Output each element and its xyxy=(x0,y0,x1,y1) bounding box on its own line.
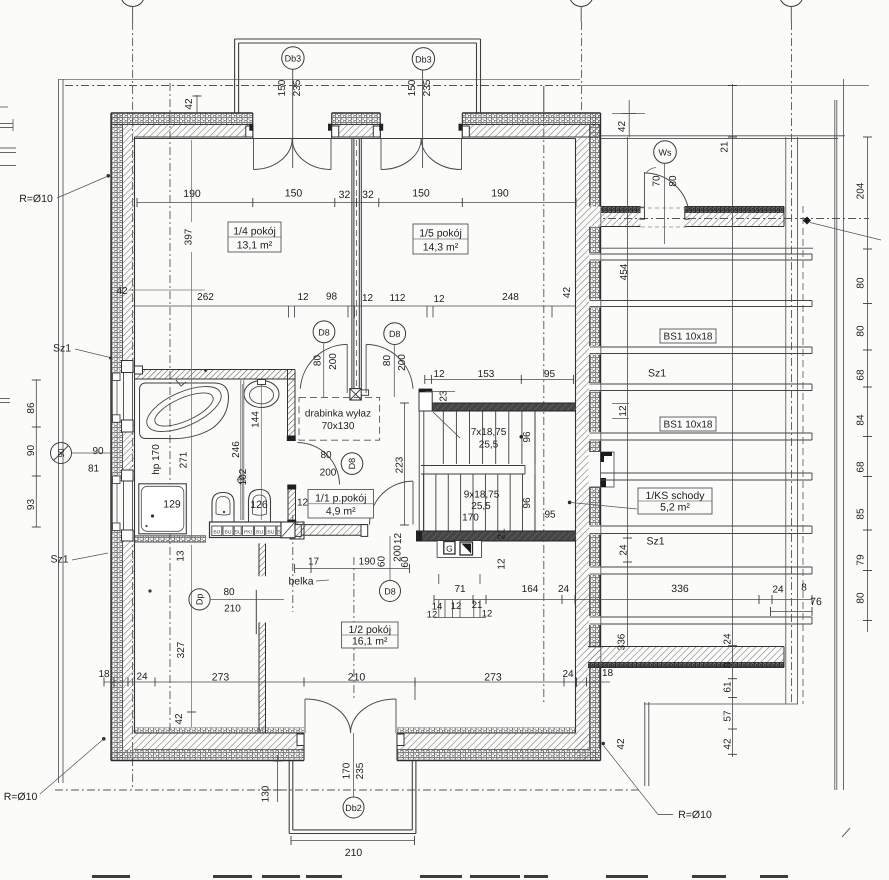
svg-text:17: 17 xyxy=(308,557,320,568)
Db3 left stem xyxy=(292,69,294,168)
svg-text:BU: BU xyxy=(225,530,232,536)
bathroom rotated dims xyxy=(151,411,262,486)
window circle Ws xyxy=(654,141,677,244)
svg-text:210: 210 xyxy=(348,672,366,684)
svg-text:D8: D8 xyxy=(347,458,357,470)
plumbing axis line xyxy=(260,380,262,520)
horizontal axis dash y=85.5 xyxy=(65,85,869,87)
label R=O10 top left xyxy=(19,174,110,205)
svg-text:24: 24 xyxy=(772,585,784,596)
svg-text:belka: belka xyxy=(288,576,313,588)
door D8 bathroom arc xyxy=(298,443,340,485)
svg-text:70: 70 xyxy=(652,175,663,187)
svg-text:1/4 pokój: 1/4 pokój xyxy=(233,226,276,238)
svg-text:BS1 10x18: BS1 10x18 xyxy=(664,420,713,431)
dim 12 21 rotated below notch xyxy=(497,528,508,570)
svg-text:200: 200 xyxy=(328,353,339,370)
svg-text:24: 24 xyxy=(723,633,734,645)
label R=O10 bottom right xyxy=(601,742,712,821)
svg-text:Db2: Db2 xyxy=(345,803,362,813)
door circle D8 hall south xyxy=(380,536,401,602)
door D8 room 1/4 leaf and arc xyxy=(300,344,347,393)
diamond marker on parapet line xyxy=(803,217,881,241)
bathroom WC divider xyxy=(241,380,244,520)
bathroom top partition wall xyxy=(135,366,296,379)
svg-text:BU: BU xyxy=(267,530,274,536)
horizontal axis dash y=218.5 terrace xyxy=(576,218,869,220)
right dimension texts xyxy=(856,182,867,603)
svg-text:90: 90 xyxy=(92,446,104,457)
hall dim 17 190 60 xyxy=(295,556,410,573)
bottom page smudges xyxy=(92,875,788,878)
svg-text:150: 150 xyxy=(407,79,418,96)
svg-text:80: 80 xyxy=(223,587,235,598)
hall dim 12 partition xyxy=(297,498,309,509)
label Sz1 left upper xyxy=(53,343,112,360)
radiator row xyxy=(210,522,282,538)
dimension 223 stair left xyxy=(395,403,409,525)
svg-text:5,2 m²: 5,2 m² xyxy=(660,502,690,514)
right wall joist bearing slots xyxy=(589,253,601,625)
svg-text:1/5 pokój: 1/5 pokój xyxy=(419,228,462,240)
corner dots xyxy=(148,369,207,593)
dim 397 room 1/4 xyxy=(184,140,195,540)
door circle Db2 xyxy=(343,797,364,818)
svg-text:68: 68 xyxy=(856,461,867,473)
svg-text:PKI: PKI xyxy=(244,530,252,536)
svg-text:153: 153 xyxy=(478,369,495,380)
svg-text:271: 271 xyxy=(179,451,190,468)
svg-text:93: 93 xyxy=(26,499,37,511)
drabinka wylaz dashed box xyxy=(299,397,380,440)
svg-text:R=Ø10: R=Ø10 xyxy=(678,809,712,821)
interior dimension chain 262 12 98 12 112 12 248 42 xyxy=(135,287,576,318)
right wall bottom terrace junction xyxy=(576,648,601,669)
dimension 130 bay xyxy=(261,755,283,802)
svg-text:12: 12 xyxy=(433,294,445,305)
svg-text:130: 130 xyxy=(261,785,272,802)
axis circle A top-left xyxy=(121,0,145,22)
eave double line left xyxy=(59,79,64,783)
right dimension chain line xyxy=(863,137,872,632)
axis circle C top-right xyxy=(779,0,803,22)
dim texts right wall chain lower xyxy=(723,633,734,750)
svg-text:Ws: Ws xyxy=(659,148,672,158)
bathroom texts xyxy=(163,499,268,512)
door D8 hall-to-room2 leaf and arc xyxy=(370,481,414,524)
left wall thickness label 42 xyxy=(116,286,205,297)
top wall inner face line xyxy=(135,138,576,140)
svg-text:8: 8 xyxy=(801,583,807,594)
axis dash line stair x=543.8 xyxy=(543,86,545,704)
svg-text:12: 12 xyxy=(297,292,309,303)
bottom bay outline xyxy=(289,761,416,834)
dim line 246-102 xyxy=(241,384,243,520)
axis dash line B x=582 xyxy=(581,22,583,113)
left wall window Sz1 upper gap xyxy=(112,373,134,421)
svg-text:70x130: 70x130 xyxy=(322,421,355,432)
svg-text:7x18,75: 7x18,75 xyxy=(471,427,507,438)
toilet left xyxy=(212,493,234,522)
label BS1 10x18 upper xyxy=(660,329,716,343)
terrace top edge lines xyxy=(601,136,846,139)
stair dim 95 inner xyxy=(544,510,556,521)
axis dash line C x=791.5 xyxy=(791,22,793,704)
svg-text:397: 397 xyxy=(184,228,195,245)
svg-text:12: 12 xyxy=(497,558,508,570)
page edge dimension stubs xyxy=(0,107,16,403)
bottom eave dash y=790 xyxy=(55,789,640,791)
svg-text:102: 102 xyxy=(238,468,249,485)
svg-text:Sz1: Sz1 xyxy=(50,554,68,566)
svg-text:42: 42 xyxy=(184,98,195,110)
insulation strip below bathroom xyxy=(135,536,207,542)
svg-text:96: 96 xyxy=(522,431,533,443)
top parapet left segment xyxy=(601,207,645,227)
hall left pier xyxy=(287,485,296,525)
svg-text:86: 86 xyxy=(26,402,37,414)
svg-text:200: 200 xyxy=(397,354,408,371)
terrace joists xyxy=(601,248,814,624)
washbasin xyxy=(244,380,279,408)
valve symbol on divider xyxy=(238,477,244,483)
level marker circle left xyxy=(51,443,112,464)
top wall jamb blocks door 2 xyxy=(373,124,469,137)
svg-text:13,1 m²: 13,1 m² xyxy=(237,240,273,252)
Db3 right stem xyxy=(422,70,424,168)
svg-text:60: 60 xyxy=(377,556,388,568)
intermediate landing lines xyxy=(421,466,525,475)
right exterior wall xyxy=(576,113,601,761)
svg-text:80: 80 xyxy=(856,592,867,604)
svg-text:85: 85 xyxy=(856,508,867,520)
svg-text:80: 80 xyxy=(856,325,867,337)
bathroom right wall upper xyxy=(287,370,296,442)
parapet door Ws leaf and arc xyxy=(641,172,689,227)
gas meter box G xyxy=(444,542,455,555)
Db2 stem xyxy=(353,733,355,797)
left wall window Sz1 lower gap xyxy=(112,481,134,530)
belka axis dash x=292.8 xyxy=(292,515,294,612)
svg-text:262: 262 xyxy=(197,292,214,303)
svg-text:190: 190 xyxy=(359,557,376,568)
belka label xyxy=(288,576,328,588)
stair top-left block xyxy=(419,389,433,411)
top wall middle pier xyxy=(332,113,381,139)
svg-text:190: 190 xyxy=(183,188,201,200)
french door Db2 leaves xyxy=(305,699,396,733)
chimney duct xyxy=(352,139,361,389)
svg-text:42: 42 xyxy=(617,121,628,133)
stairwell left boundary xyxy=(419,411,424,531)
svg-text:42: 42 xyxy=(723,738,734,750)
svg-text:235: 235 xyxy=(355,762,366,779)
svg-text:170: 170 xyxy=(342,762,353,779)
hall rotated dims 12 200 60 xyxy=(393,533,412,568)
left wall window Sz1 upper jambs xyxy=(113,361,134,433)
svg-text:150: 150 xyxy=(277,79,288,96)
svg-text:68: 68 xyxy=(856,369,867,381)
partition Dp upper segment xyxy=(259,544,266,577)
terrace vertical line x732 with dim ticks xyxy=(728,84,737,757)
svg-text:12: 12 xyxy=(427,610,438,621)
svg-text:90: 90 xyxy=(26,445,37,457)
terrace bottom dim texts xyxy=(454,583,822,609)
room label 1/KS schody xyxy=(638,488,712,514)
Db3 right size labels 150 235 xyxy=(407,79,433,96)
svg-text:273: 273 xyxy=(212,672,230,684)
svg-text:1/2 pokój: 1/2 pokój xyxy=(348,624,391,636)
toilet right 126 xyxy=(249,490,271,522)
stair dim 96 lower xyxy=(522,497,533,509)
svg-text:248: 248 xyxy=(502,292,519,303)
stair break line xyxy=(433,412,460,438)
svg-text:61: 61 xyxy=(723,681,734,693)
dim 76 sub line xyxy=(771,607,813,616)
svg-text:98: 98 xyxy=(326,292,338,303)
door D8 room 1/4 size labels xyxy=(313,353,340,370)
svg-text:235: 235 xyxy=(422,79,433,96)
svg-text:G: G xyxy=(446,544,453,554)
stair dim 23 xyxy=(425,390,455,402)
svg-text:24: 24 xyxy=(136,672,148,683)
leader from stair to 1KS label xyxy=(570,502,637,509)
dim 71 bracket xyxy=(439,574,480,584)
svg-text:21: 21 xyxy=(720,141,731,153)
label Sz1 terrace upper xyxy=(648,368,666,380)
terrace bottom dim chain xyxy=(434,595,812,604)
svg-text:129: 129 xyxy=(163,499,181,511)
svg-text:Dp: Dp xyxy=(195,594,205,606)
svg-text:9x18,75: 9x18,75 xyxy=(464,490,500,501)
svg-text:24: 24 xyxy=(619,544,630,556)
french door Db3 left leaves xyxy=(254,139,332,170)
dimension 12 outside right wall xyxy=(612,404,629,419)
exterior stair door marks 1/KS xyxy=(601,452,615,487)
svg-text:Sz1: Sz1 xyxy=(646,536,664,548)
meter recess below stair xyxy=(438,541,482,557)
svg-text:204: 204 xyxy=(856,182,867,199)
stair text 9x18,75 25,5 170 xyxy=(462,490,500,524)
svg-text:24: 24 xyxy=(558,584,570,595)
svg-text:200: 200 xyxy=(320,468,337,479)
svg-text:drabinka wyłaz: drabinka wyłaz xyxy=(305,409,371,420)
svg-text:42: 42 xyxy=(616,738,627,750)
svg-text:BU: BU xyxy=(256,530,263,536)
upper flight treads 7x18.75 xyxy=(443,411,535,531)
top wall jamb blocks door 1 xyxy=(246,124,339,137)
label Sz1 terrace lower xyxy=(646,536,664,548)
room label 1/5 pokoj xyxy=(413,224,468,254)
bottom wall right segment xyxy=(397,733,601,761)
dim 42 rotated bottom right xyxy=(616,738,627,750)
bottom wall floor insulation strips xyxy=(135,728,576,734)
left wall window Sz1 lower jambs xyxy=(113,470,134,541)
corner bathtub xyxy=(140,377,229,441)
door D8 bathroom size labels xyxy=(320,450,337,479)
svg-text:71: 71 xyxy=(454,584,466,595)
svg-text:80: 80 xyxy=(320,450,332,461)
room label 1/2 pokoj xyxy=(342,622,399,648)
axis dash line A x=132.6 xyxy=(132,22,134,790)
shower tray 129 xyxy=(139,484,187,534)
svg-text:25,5: 25,5 xyxy=(479,440,499,451)
door axis dash x=353.9 xyxy=(353,557,355,699)
door D8 room 1/5 size labels xyxy=(382,354,408,371)
bottom terrace band xyxy=(588,647,784,668)
svg-text:79: 79 xyxy=(856,554,867,566)
svg-text:12: 12 xyxy=(297,498,309,509)
door Dp leaf xyxy=(255,590,257,634)
stair text 7x18,75 25,5 xyxy=(471,427,507,451)
door circle Db3 right xyxy=(412,48,434,70)
svg-text:273: 273 xyxy=(484,672,502,684)
svg-text:42: 42 xyxy=(116,286,128,297)
small dim cluster 14 12 21 12 12 xyxy=(427,600,493,621)
svg-text:BS1 10x18: BS1 10x18 xyxy=(664,332,713,343)
dim 24 rotated below Sz1 xyxy=(619,538,633,562)
door D8 room 1/5 leaf and arc xyxy=(366,344,413,393)
axis circle B top-middle xyxy=(569,0,593,22)
right wall terrace parapet junction xyxy=(576,207,601,227)
svg-text:454: 454 xyxy=(619,263,630,280)
svg-text:R=Ø10: R=Ø10 xyxy=(4,791,38,803)
corner wall block left of hall xyxy=(290,522,304,539)
svg-text:25,5: 25,5 xyxy=(471,501,491,512)
svg-text:164: 164 xyxy=(522,584,539,595)
top wall left pier xyxy=(111,113,253,139)
svg-text:21: 21 xyxy=(472,600,483,611)
radiator end block xyxy=(281,522,295,538)
stair bottom wall xyxy=(416,531,576,541)
svg-text:21: 21 xyxy=(497,528,508,540)
svg-text:16,1 m²: 16,1 m² xyxy=(352,636,388,648)
svg-text:SL: SL xyxy=(235,530,241,536)
Db2 size labels 170 235 xyxy=(342,762,367,779)
svg-text:24: 24 xyxy=(562,669,574,680)
svg-text:8: 8 xyxy=(723,662,734,668)
duct cleanout box with X xyxy=(350,389,369,400)
svg-text:4,9 m²: 4,9 m² xyxy=(326,506,356,518)
Db3 left size labels 150 235 xyxy=(277,79,303,96)
svg-text:18: 18 xyxy=(98,669,110,680)
dim 454 rotated xyxy=(619,263,630,280)
svg-text:Db3: Db3 xyxy=(415,54,432,64)
svg-text:1/KS schody: 1/KS schody xyxy=(646,490,706,502)
svg-text:R=Ø10: R=Ø10 xyxy=(19,193,53,205)
top wall right pier xyxy=(462,113,600,139)
svg-text:80: 80 xyxy=(668,175,679,187)
dim 21 top right xyxy=(720,141,731,153)
meter box filled xyxy=(460,542,473,555)
svg-text:80: 80 xyxy=(313,355,324,367)
dim 327 42 left interior xyxy=(174,545,196,727)
svg-text:hp 170: hp 170 xyxy=(151,444,162,475)
terrace horizontal y704 xyxy=(644,703,798,705)
stray slash bottom right xyxy=(842,828,850,837)
svg-text:Sz1: Sz1 xyxy=(648,368,666,380)
svg-text:126: 126 xyxy=(250,499,268,511)
svg-text:96: 96 xyxy=(522,497,533,509)
left dimension chain 86 90 93 xyxy=(26,380,41,527)
svg-text:13: 13 xyxy=(176,550,187,562)
svg-text:95: 95 xyxy=(544,510,556,521)
svg-text:246: 246 xyxy=(231,441,242,458)
Ws size labels 70 80 xyxy=(646,168,679,187)
svg-text:150: 150 xyxy=(285,188,303,200)
svg-text:95: 95 xyxy=(544,369,556,380)
french door Db3 right leaves xyxy=(381,139,462,170)
room label 1/1 p.pokoj xyxy=(308,490,374,519)
svg-text:14,3 m²: 14,3 m² xyxy=(423,242,459,254)
right page verticals xyxy=(835,79,844,790)
dim 336 rotated xyxy=(617,633,628,650)
svg-text:32: 32 xyxy=(362,189,374,201)
bottom door Db2 jamb blocks xyxy=(297,734,404,746)
svg-text:Sz1: Sz1 xyxy=(53,343,71,355)
svg-text:32: 32 xyxy=(339,189,351,201)
svg-text:Db3: Db3 xyxy=(285,54,302,64)
partition Dp lower segment xyxy=(259,623,266,734)
svg-text:12: 12 xyxy=(433,369,445,380)
svg-text:210: 210 xyxy=(345,847,363,859)
stair top beam wall xyxy=(432,403,576,411)
door circle D8 room 1/4 xyxy=(313,321,335,397)
top parapet right segment xyxy=(685,207,785,227)
label R=O10 bottom left xyxy=(4,737,106,803)
terrace verticals right group xyxy=(645,137,803,786)
svg-text:D8: D8 xyxy=(318,327,330,337)
top opening dimension chain 190 150 32 32 150 190 xyxy=(137,188,576,208)
bay top wall outline xyxy=(235,39,481,113)
svg-text:112: 112 xyxy=(390,293,406,304)
svg-text:80: 80 xyxy=(856,277,867,289)
svg-text:18: 18 xyxy=(602,668,614,679)
bottom wall left segment xyxy=(111,733,304,761)
svg-text:210: 210 xyxy=(224,604,241,615)
stair dim 96 upper xyxy=(522,431,533,443)
lower flight treads 9x18.75 xyxy=(424,474,535,531)
svg-text:80: 80 xyxy=(382,355,393,367)
svg-text:12: 12 xyxy=(393,533,404,545)
svg-text:327: 327 xyxy=(176,641,187,658)
svg-text:12: 12 xyxy=(451,601,462,612)
svg-text:BU: BU xyxy=(213,530,220,536)
svg-text:D8: D8 xyxy=(384,587,396,597)
svg-text:12: 12 xyxy=(482,609,493,620)
stair walk dots xyxy=(520,435,572,504)
right wall door gap 1/KS xyxy=(589,452,601,488)
svg-text:81: 81 xyxy=(88,464,100,475)
svg-text:42: 42 xyxy=(174,713,185,725)
terrace vertical line x627 xyxy=(627,137,629,647)
svg-text:84: 84 xyxy=(856,414,867,426)
svg-text:223: 223 xyxy=(395,456,406,473)
label Sz1 left lower xyxy=(50,553,108,566)
door circle D8 room 1/5 xyxy=(384,323,406,397)
label BS1 10x18 lower xyxy=(660,417,716,431)
room label 1/4 pokoj xyxy=(228,222,281,252)
svg-text:60: 60 xyxy=(400,556,411,568)
svg-text:42: 42 xyxy=(562,287,573,299)
dimension chain 12 153 95 xyxy=(425,369,574,384)
svg-text:170: 170 xyxy=(462,513,479,524)
dimension 210 below bay xyxy=(291,836,415,859)
svg-text:12: 12 xyxy=(362,293,374,304)
door circle Db3 left xyxy=(282,47,304,69)
svg-text:336: 336 xyxy=(671,583,689,595)
rotated dim 13x under shower xyxy=(176,550,187,562)
